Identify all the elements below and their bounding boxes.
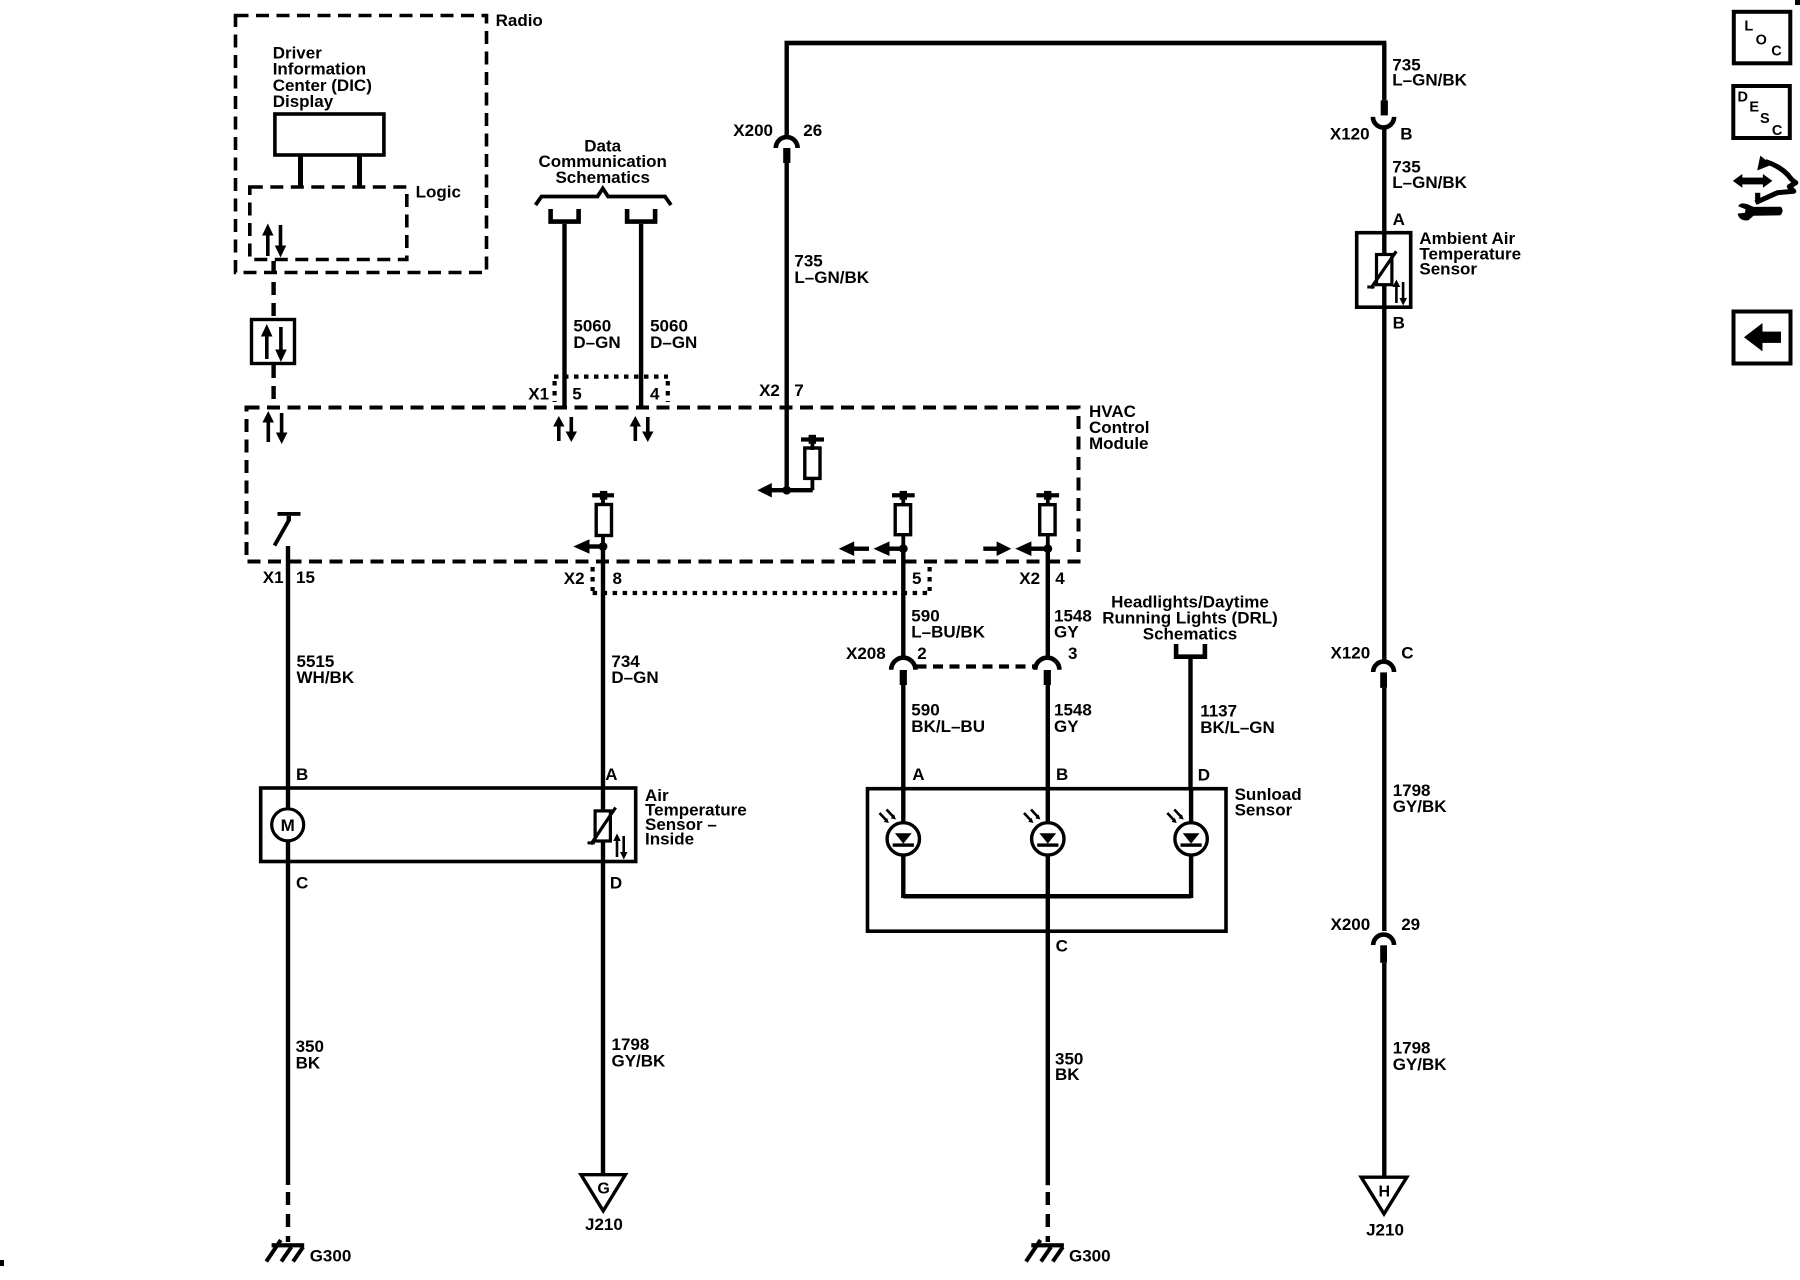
svg-text:G300: G300: [310, 1246, 352, 1265]
wire label 350 BK left: [296, 1037, 324, 1072]
ground G300 middle: [1026, 1240, 1111, 1265]
svg-text:D–GN: D–GN: [611, 668, 658, 687]
arrow right floating pin X2-4: [983, 541, 1011, 556]
ambient sensor pin A label: [1393, 210, 1405, 229]
svg-text:L–GN/BK: L–GN/BK: [794, 268, 869, 287]
wire 350 BK left solid: [286, 861, 290, 1185]
wire inside ambient upper: [1382, 231, 1386, 256]
data communication schematics label: [538, 137, 666, 187]
svg-text:B: B: [1393, 313, 1405, 332]
svg-text:GY/BK: GY/BK: [1393, 1055, 1448, 1074]
svg-text:X1: X1: [528, 384, 549, 403]
svg-text:B: B: [296, 765, 308, 784]
wire label 1548 GY upper: [1054, 606, 1092, 641]
wire 735 to X2-7: [785, 163, 789, 492]
pin label X1-15: [263, 568, 315, 587]
arrow out left at X2-8 junction: [573, 539, 603, 554]
wire label 1137 BK/L-GN: [1200, 702, 1275, 737]
brace: [536, 189, 672, 206]
resistor R2 with voltage supply: [892, 491, 915, 547]
wire 1548 GY to sunload B: [1046, 685, 1050, 787]
svg-text:15: 15: [296, 568, 315, 587]
serial arrows inside airtemp sensor: [613, 834, 627, 860]
svg-text:C: C: [1056, 936, 1068, 955]
arrow left floating pin 5: [839, 541, 869, 556]
wire 350 BK middle dashed: [1046, 1192, 1050, 1242]
svg-text:X200: X200: [1331, 915, 1371, 934]
air temp sensor pin C label: [296, 873, 308, 892]
wire inside sunload B upper: [1046, 787, 1050, 823]
svg-text:H: H: [1379, 1183, 1391, 1200]
node junction pin 5: [899, 544, 908, 553]
wire 350 BK left dashed: [286, 1192, 290, 1242]
svg-text:2: 2: [917, 644, 926, 663]
svg-text:C: C: [296, 873, 308, 892]
wire label 1798 GY/BK left: [612, 1035, 667, 1070]
svg-text:A: A: [912, 765, 924, 784]
svg-text:G: G: [597, 1181, 609, 1198]
wire 735 upper segment: [785, 43, 789, 136]
wire label 5060 D-GN right: [650, 316, 697, 351]
svg-text:J210: J210: [585, 1215, 623, 1234]
ambient sensor label: [1419, 229, 1521, 279]
svg-text:O: O: [1756, 32, 1767, 48]
wire label 735 L-GN/BK: [794, 251, 869, 286]
wire 735 to ambient sensor: [1382, 127, 1386, 232]
wire X1-15 to sensor B: [286, 546, 290, 786]
svg-text:Module: Module: [1089, 434, 1149, 453]
wire DIC leg right: [357, 155, 362, 186]
wire inside sunload A lower: [901, 855, 905, 899]
wire 1798 ambient to X120-C: [1382, 307, 1386, 661]
thermistor inside sensor: [588, 808, 616, 845]
node junction X2-8: [599, 542, 608, 551]
wire data 2: [639, 224, 643, 406]
svg-text:A: A: [605, 765, 617, 784]
sunload sensor box: [868, 789, 1227, 932]
svg-text:Logic: Logic: [416, 183, 461, 202]
wire DIC leg left: [298, 155, 303, 186]
pin 5 label: [572, 384, 581, 403]
svg-text:5: 5: [572, 384, 581, 403]
connector X208 pin 3: [1035, 644, 1077, 685]
pin label X1: [528, 384, 549, 403]
sunload pin C label: [1056, 936, 1068, 955]
serial arrows inside HVAC left: [262, 411, 287, 444]
wire label 734 D-GN: [611, 652, 658, 687]
corner mark top right: [1795, 0, 1800, 5]
DRL schematics label: [1102, 592, 1278, 643]
wire inside airtemp B upper: [286, 786, 290, 810]
icon button DESC: [1733, 86, 1790, 139]
svg-text:M: M: [281, 816, 295, 835]
off-page connector DRL: [1176, 644, 1205, 657]
logic dashed box: [250, 187, 407, 260]
wire label 5060 D-GN left: [573, 316, 620, 351]
pin label X2-8: [564, 569, 622, 588]
ground triangle G J210: [581, 1175, 625, 1234]
svg-text:Schematics: Schematics: [555, 168, 650, 187]
svg-text:C: C: [1772, 123, 1783, 139]
svg-text:4: 4: [1055, 569, 1065, 588]
svg-text:X2: X2: [759, 381, 780, 400]
svg-text:WH/BK: WH/BK: [297, 668, 355, 687]
connector X200-26: [776, 137, 798, 163]
ambient air temperature sensor box: [1357, 233, 1411, 308]
wire label 350 BK middle: [1055, 1049, 1083, 1084]
svg-text:L–BU/BK: L–BU/BK: [911, 623, 985, 642]
sunload internal bus wire: [903, 894, 1191, 899]
top bus wire: [785, 41, 1387, 46]
svg-text:BK/L–BU: BK/L–BU: [911, 717, 985, 736]
pin 5 label below: [912, 569, 921, 588]
air temp sensor pin D label: [610, 873, 622, 892]
pin label X2-4: [1019, 569, 1065, 588]
wire label 5515 WH/BK: [297, 652, 355, 687]
serial data arrows in serial box: [261, 324, 287, 362]
wire inside airtemp A: [601, 786, 605, 812]
wire 1548 pin X2-4 to X208-3: [1046, 549, 1050, 658]
svg-text:D: D: [610, 873, 622, 892]
photodiode 1: [880, 810, 920, 856]
wire 734 X2-8 to sensor A: [601, 547, 605, 787]
svg-text:X120: X120: [1331, 643, 1371, 662]
air temp sensor pin A label: [605, 765, 617, 784]
wire 735 right upper: [1382, 43, 1386, 100]
radio dashed box: [236, 16, 487, 273]
svg-text:4: 4: [650, 384, 660, 403]
wire inside sunload D lower: [1189, 855, 1193, 899]
svg-text:L–GN/BK: L–GN/BK: [1392, 71, 1467, 90]
svg-text:D–GN: D–GN: [650, 333, 697, 352]
connector X200-29: [1331, 915, 1421, 963]
HVAC control module label: [1089, 402, 1149, 453]
connector X120-C: [1331, 643, 1414, 688]
wire inside sunload B lower: [1046, 855, 1050, 934]
node junction pin X2-4: [1043, 544, 1052, 553]
X200 label top: [733, 121, 773, 140]
air temp sensor pin B label: [296, 765, 308, 784]
svg-text:X200: X200: [733, 121, 773, 140]
svg-text:X2: X2: [1019, 569, 1040, 588]
wire inside airtemp B lower: [286, 840, 290, 863]
off-page connector data wire 2: [627, 209, 655, 222]
off-page connector data wire 1: [551, 209, 579, 222]
svg-text:8: 8: [613, 569, 622, 588]
svg-text:B: B: [1400, 125, 1412, 144]
air temp sensor label: [645, 786, 747, 849]
svg-text:Display: Display: [273, 92, 334, 111]
svg-text:E: E: [1749, 99, 1759, 115]
wire inside sunload A upper: [901, 787, 905, 823]
motor M: [272, 809, 304, 841]
svg-text:C: C: [1401, 643, 1413, 662]
ground triangle H J210: [1361, 1177, 1407, 1239]
svg-text:S: S: [1760, 111, 1770, 127]
svg-text:Schematics: Schematics: [1143, 625, 1238, 644]
pin 26 label: [803, 121, 822, 140]
svg-text:5: 5: [912, 569, 921, 588]
svg-text:GY/BK: GY/BK: [1393, 797, 1448, 816]
ground G300 left: [266, 1240, 351, 1265]
svg-text:GY: GY: [1054, 623, 1079, 642]
svg-text:Sensor: Sensor: [1235, 800, 1293, 819]
svg-text:X120: X120: [1330, 125, 1370, 144]
connector X208 pin 2: [891, 644, 927, 685]
resistor R4 with voltage supply (X2-8): [592, 491, 614, 547]
wire 590 BK/L-BU to sunload A: [901, 685, 905, 787]
wire inside airtemp A lower: [601, 840, 605, 863]
svg-text:G300: G300: [1069, 1246, 1111, 1265]
wire label 735 L-GN/BK right lower: [1392, 158, 1467, 192]
arrow left attached pin X2-4: [1015, 541, 1048, 556]
logic label: [416, 183, 461, 202]
connector label X120-B: [1330, 125, 1413, 144]
wire inside ambient lower: [1382, 285, 1386, 310]
svg-text:B: B: [1056, 765, 1068, 784]
HVAC control module dashed box: [247, 408, 1079, 562]
svg-text:C: C: [1771, 44, 1782, 60]
wire X200-29 to J210-H: [1382, 963, 1386, 1182]
icon button back arrow: [1734, 312, 1791, 364]
svg-text:29: 29: [1401, 915, 1420, 934]
svg-text:BK: BK: [1055, 1065, 1080, 1084]
svg-text:X2: X2: [564, 569, 585, 588]
arrow left attached pin 5: [874, 541, 905, 556]
serial arrows inside ambient sensor: [1393, 280, 1407, 306]
svg-text:BK: BK: [296, 1053, 321, 1072]
svg-text:L–GN/BK: L–GN/BK: [1392, 173, 1467, 192]
connector X1 dotted box: [554, 377, 668, 402]
wire label 1798 GY/BK lower right: [1393, 1039, 1448, 1074]
icon diagnostic arrows and wrench: [1733, 156, 1796, 221]
sunload pin B label: [1056, 765, 1068, 784]
connector X120-B: [1373, 100, 1394, 127]
svg-text:Sensor: Sensor: [1419, 260, 1477, 279]
pin 4 label: [650, 384, 660, 403]
serial arrows below pin X1-5: [553, 416, 577, 442]
svg-text:L: L: [1744, 19, 1753, 35]
svg-text:GY/BK: GY/BK: [612, 1052, 667, 1071]
svg-text:26: 26: [803, 121, 822, 140]
wire dashed serial box to HVAC: [271, 365, 275, 406]
ambient sensor pin B label: [1393, 313, 1405, 332]
wire 1137 to sunload D: [1188, 659, 1192, 787]
svg-text:J210: J210: [1366, 1220, 1404, 1239]
svg-text:3: 3: [1068, 644, 1077, 663]
sunload pin D label: [1198, 766, 1210, 785]
DIC display box: [275, 114, 384, 155]
svg-text:A: A: [1393, 210, 1405, 229]
corner mark bottom left: [0, 1260, 4, 1266]
wire inside sunload D upper: [1189, 787, 1193, 823]
wire X120-C to X200-29: [1382, 688, 1386, 931]
resistor R1 with voltage supply: [801, 435, 824, 490]
svg-text:D–GN: D–GN: [573, 333, 620, 352]
radio label: [496, 11, 543, 30]
svg-text:BK/L–GN: BK/L–GN: [1200, 718, 1275, 737]
svg-text:GY: GY: [1054, 717, 1079, 736]
serial data arrows in logic box: [262, 224, 286, 258]
dashed link X208 pins: [917, 664, 1036, 668]
serial arrows below pin X1-4: [630, 416, 654, 442]
wire label 590 L-BU/BK: [911, 606, 985, 641]
sunload pin A label: [912, 765, 924, 784]
resistor R3 with voltage supply: [1036, 491, 1059, 547]
wire data 1: [562, 224, 566, 406]
svg-text:X208: X208: [846, 644, 886, 663]
svg-text:D: D: [1738, 89, 1748, 105]
svg-text:7: 7: [794, 381, 803, 400]
connector X2 dotted box: [593, 567, 930, 593]
wire label 1548 GY lower: [1054, 701, 1092, 736]
arrow out left at X2-7 junction: [757, 483, 788, 498]
photodiode 3: [1167, 810, 1207, 856]
air temperature sensor inside box: [261, 788, 636, 862]
thermistor ambient: [1367, 251, 1396, 288]
connector X208 label: [846, 644, 886, 663]
DIC display label: [273, 44, 372, 111]
svg-text:Inside: Inside: [645, 830, 694, 849]
pin label X2-7: [759, 381, 804, 400]
wire junction to R1: [787, 488, 813, 492]
node junction X2-7: [782, 486, 791, 495]
wire label 1798 GY/BK upper right: [1393, 781, 1448, 816]
wire 590 pin5 to X208-2: [901, 549, 905, 658]
svg-text:X1: X1: [263, 568, 284, 587]
wire 1798 GY/BK left: [601, 861, 605, 1180]
wire dashed logic to serial box: [271, 261, 275, 318]
serial data box: [252, 320, 295, 364]
photodiode 2: [1024, 810, 1064, 856]
icon button LOC: [1734, 12, 1791, 64]
sunload sensor label: [1235, 785, 1302, 819]
switch in HVAC module: [275, 512, 301, 546]
wire label 590 BK/L-BU: [911, 701, 985, 736]
svg-text:D: D: [1198, 766, 1210, 785]
wire label 735 L-GN/BK right upper: [1392, 56, 1467, 90]
svg-text:Radio: Radio: [496, 11, 543, 30]
wire 350 BK middle solid: [1046, 931, 1050, 1185]
